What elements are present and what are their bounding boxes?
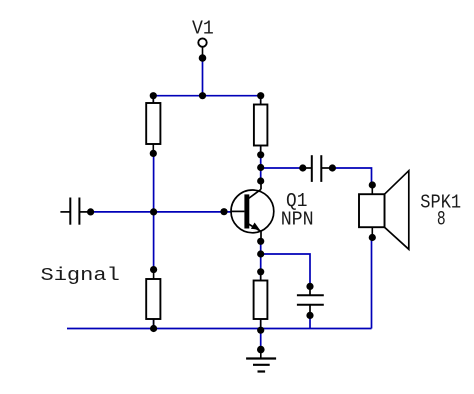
node: V1 terminal dot [199, 54, 207, 62]
wire: emitter column (emitter to R4 top) [260, 241, 262, 280]
wire: collector node to output cap [261, 167, 303, 169]
node: base junction [150, 208, 157, 215]
resistor R4 (emitter) [254, 272, 268, 330]
wire: input to base [91, 211, 231, 213]
resistor R2 (upper right) [254, 96, 268, 155]
node: R3 top [150, 266, 157, 273]
resistor R1 (upper left) [146, 96, 160, 154]
wire: emitter column lower (R4 bottom to rail) [260, 319, 262, 329]
wire: rail to ground symbol [260, 329, 262, 350]
node: rail / R2 top [257, 92, 264, 99]
capacitor C2 (output coupling) [303, 155, 333, 182]
speaker SPK1 [359, 171, 409, 250]
node: R4 bottom / rail [257, 327, 264, 334]
svg-text:8: 8 [437, 208, 446, 231]
node: SPK1 bottom terminal [369, 234, 376, 241]
wire: left column (R1 bottom to base node to R3 top) [153, 153, 155, 269]
wire: V1 drop to top rail [202, 58, 204, 96]
wire: top rail [153, 95, 260, 97]
node: collector terminal [257, 177, 264, 184]
node: rail / R1 top [150, 92, 157, 99]
node: C3 top terminal [306, 283, 313, 290]
wire: right column upper (rail to R2 top) [260, 96, 262, 105]
node: base terminal [220, 208, 227, 215]
node: ground terminal [257, 346, 265, 354]
transistor Q1 [231, 181, 274, 241]
wire: emitter node to bypass cap [261, 254, 310, 286]
node: emitter terminal [257, 238, 264, 245]
svg-text:V1: V1 [192, 18, 214, 40]
node: C2 left terminal [299, 164, 306, 171]
node: collector branch junction [257, 164, 264, 171]
wire: bypass cap bottom to rail [309, 315, 311, 328]
resistor R3 (lower left) [146, 270, 160, 329]
ground [246, 350, 276, 372]
wire: speaker bottom to ground rail [371, 238, 373, 329]
node: R2 bottom [257, 151, 264, 158]
node: emitter branch junction [257, 250, 264, 257]
node: R3 bottom / rail [150, 325, 157, 332]
wire: left column lower (R3 bottom to ground rail) [153, 319, 155, 329]
wire: right column (R2 bottom to collector) [260, 145, 262, 181]
wire: bottom ground rail [67, 328, 372, 330]
node: C2 right terminal [329, 164, 336, 171]
node: C3 bottom terminal [306, 312, 313, 319]
svg-text:Signal: Signal [41, 264, 120, 286]
wire: left column upper (rail to R1 top) [152, 96, 154, 103]
capacitor C3 (emitter bypass) [297, 286, 324, 315]
node: rail / V1 junction [199, 92, 206, 99]
node: SPK1 top terminal [369, 181, 376, 188]
voltage source V1 terminal [198, 38, 206, 58]
node: C1 right terminal [87, 208, 94, 215]
node: R1 bottom [150, 150, 157, 157]
capacitor C1 (input coupling) [60, 198, 90, 225]
node: R4 top [257, 268, 264, 275]
wire: output cap to speaker top [332, 168, 371, 185]
svg-text:NPN: NPN [281, 209, 314, 231]
